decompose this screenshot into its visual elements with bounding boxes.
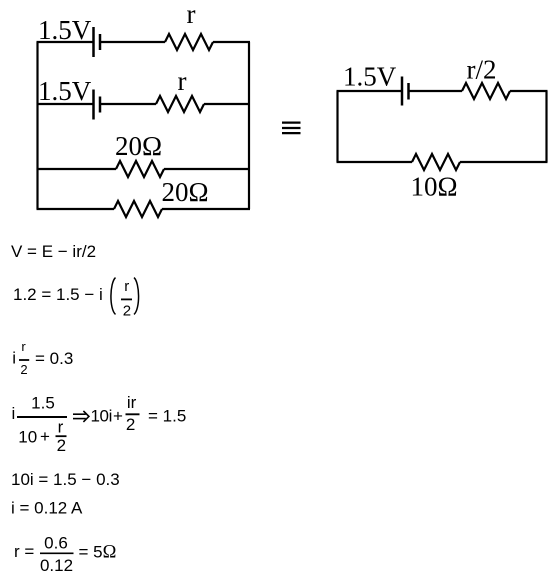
svg-text:r/2: r/2 [467, 55, 497, 85]
wire: battery B1 to resistor R1 [101, 41, 165, 43]
svg-text:1.5V: 1.5V [38, 76, 92, 106]
svg-text:20Ω: 20Ω [161, 177, 208, 207]
svg-text:= 5Ω: = 5Ω [79, 543, 117, 563]
svg-text:10: 10 [18, 428, 37, 447]
svg-text:ir: ir [127, 393, 137, 412]
svg-text:i: i [12, 349, 16, 368]
resistor R1 (r) zigzag [165, 34, 213, 50]
wire: branch 2 from left bus to battery B2 [37, 103, 93, 105]
svg-text:1.5: 1.5 [31, 394, 55, 413]
equivalence symbol between circuits [282, 123, 301, 134]
wire: branch 3 from left bus to resistor R3 [37, 168, 117, 170]
wire: equivalent circuit left vertical [336, 91, 338, 162]
battery B3 (1.5V cell, plates) [402, 77, 409, 106]
battery B1 (1.5V cell, plates) [94, 27, 101, 57]
svg-text:1.5V: 1.5V [38, 15, 92, 45]
battery B2 (1.5V cell, plates) [94, 90, 101, 120]
svg-text:= 1.5: = 1.5 [148, 407, 186, 426]
wire: left circuit right vertical bus [248, 42, 250, 209]
svg-text:2: 2 [57, 436, 66, 455]
wire: branch 1 from left bus to battery B1 [37, 41, 93, 43]
resistor R5 (r/2) zigzag [462, 83, 510, 99]
svg-text:r: r [187, 0, 196, 29]
wire: bottom-left corner to resistor R6 [337, 161, 413, 163]
svg-text:1.5V: 1.5V [343, 62, 397, 92]
resistor R2 (r) zigzag [156, 96, 204, 112]
svg-text:r: r [124, 278, 129, 295]
wire: left circuit left vertical bus [36, 42, 38, 209]
wire: resistor R1 to right bus [213, 41, 250, 43]
svg-text:r: r [178, 66, 187, 96]
svg-text:0.6: 0.6 [44, 534, 68, 553]
resistor R3 (20 ohm) zigzag [116, 161, 164, 177]
svg-text:2: 2 [126, 415, 135, 434]
svg-text:10i: 10i [91, 407, 113, 426]
svg-text:+: + [40, 427, 50, 446]
wire: branch 4 (bottom) from left bus to resistor R4 [37, 208, 115, 210]
svg-text:20Ω: 20Ω [115, 131, 162, 161]
resistor R4 (20 ohm) zigzag [114, 201, 162, 217]
wire: resistor R5 to top-right corner [510, 90, 548, 92]
svg-text:V = E − ir/2: V = E − ir/2 [11, 242, 96, 261]
wire: resistor R2 to right bus [204, 103, 250, 105]
svg-text:0.12: 0.12 [40, 556, 73, 575]
wire: battery B2 to resistor R2 [101, 103, 156, 105]
wire: top-left corner to battery B3 [337, 90, 402, 92]
svg-text:r =: r = [14, 542, 34, 561]
svg-text:10i = 1.5 − 0.3: 10i = 1.5 − 0.3 [11, 470, 120, 489]
wire: resistor R3 to right bus [164, 168, 250, 170]
svg-text:10Ω: 10Ω [410, 172, 457, 202]
svg-text:+: + [113, 407, 123, 426]
svg-text:r: r [21, 339, 26, 354]
wire: battery B3 to resistor R5 [410, 90, 463, 92]
wire: resistor R6 to bottom-right corner [460, 161, 548, 163]
svg-text:i = 0.12 A: i = 0.12 A [11, 499, 83, 518]
svg-text:2: 2 [20, 362, 27, 377]
svg-text:i: i [12, 404, 16, 423]
svg-text:= 0.3: = 0.3 [35, 349, 73, 368]
svg-text:2: 2 [123, 303, 131, 320]
wire: equivalent circuit right vertical [545, 91, 547, 162]
svg-text:1.2 = 1.5 − i: 1.2 = 1.5 − i [13, 285, 103, 304]
resistor R6 (10 ohm) zigzag [412, 154, 460, 170]
wire: resistor R4 to right bus [162, 208, 250, 210]
svg-text:r: r [58, 417, 64, 436]
